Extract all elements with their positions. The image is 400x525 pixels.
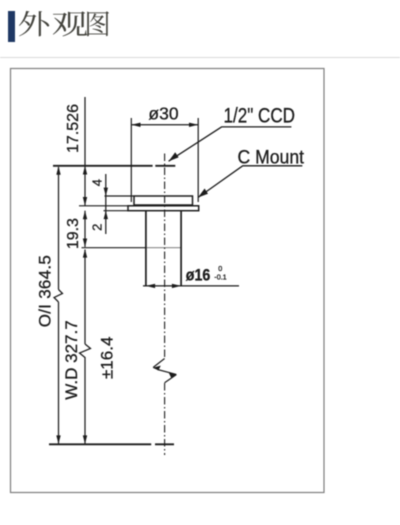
svg-text:W.D 327.7: W.D 327.7 [62,320,81,399]
leader arrowhead CCD [169,152,179,161]
dia30 extension lines [131,118,198,202]
arrowhead 17.526 bottom [83,197,87,206]
svg-text:2: 2 [89,224,104,231]
W.D dimension line [84,250,86,444]
arrowhead dia16 left [146,284,155,288]
leader arrowhead C mount [198,189,208,198]
arrowhead 19.3 bottom [83,239,87,247]
dia16 dimension line [143,285,239,287]
arrowhead O/I bottom [56,435,60,444]
arrowhead dia16 right [172,284,181,288]
dim line 19.3 [84,211,86,247]
svg-text:ø16: ø16 [186,266,211,284]
arrowhead dia30 left [131,123,140,127]
lens front line inside barrel [146,247,181,249]
svg-text:±16.4: ±16.4 [98,337,117,379]
helper dim line for 4 and 2 [105,174,107,234]
arrowhead dia30 right [189,123,198,127]
drawing frame box [11,69,325,493]
svg-text:0: 0 [218,264,222,273]
flange plate outline [128,206,199,211]
arrowhead O/I top [56,166,60,175]
dim line 17.526 [84,97,86,206]
title block navy bar [8,11,15,42]
plate bottom extension line [104,210,129,212]
ring top extension line [105,195,135,197]
arrowhead 19.3 top [83,211,87,219]
svg-text:19.3: 19.3 [65,218,82,249]
svg-text:O/I 364.5: O/I 364.5 [36,255,55,327]
arrowhead W.D top [83,249,87,257]
title underline rule [0,57,400,58]
CCD image plane line [53,165,175,167]
svg-text:ø30: ø30 [148,104,178,124]
barrel outline [146,211,181,286]
center line upper [164,154,166,359]
center line lower [164,383,166,455]
svg-text:17.526: 17.526 [65,104,82,153]
plate top extension line [79,205,128,207]
O/I dimension line [58,167,60,444]
arrowhead 17.526 top [83,166,87,175]
svg-text:-0.1: -0.1 [214,273,226,282]
object plane line [49,443,174,445]
svg-text:C Mount: C Mount [238,148,305,169]
lens front extension line [82,247,146,249]
O/I break squiggle [54,290,63,303]
dia30 dimension line [131,124,198,126]
svg-text:1/2" CCD: 1/2" CCD [224,104,296,128]
center line break symbol [153,359,177,383]
C mount ring outline [134,196,193,205]
arrowhead helper 2 [104,211,108,219]
W.D break squiggle [80,344,91,358]
leader line C mount [198,166,302,198]
arrowhead W.D bottom [83,435,87,444]
leader line CCD [169,127,292,161]
svg-text:4: 4 [89,179,104,186]
arrowhead helper 4 [104,188,108,196]
title text 外观图 [19,11,109,37]
